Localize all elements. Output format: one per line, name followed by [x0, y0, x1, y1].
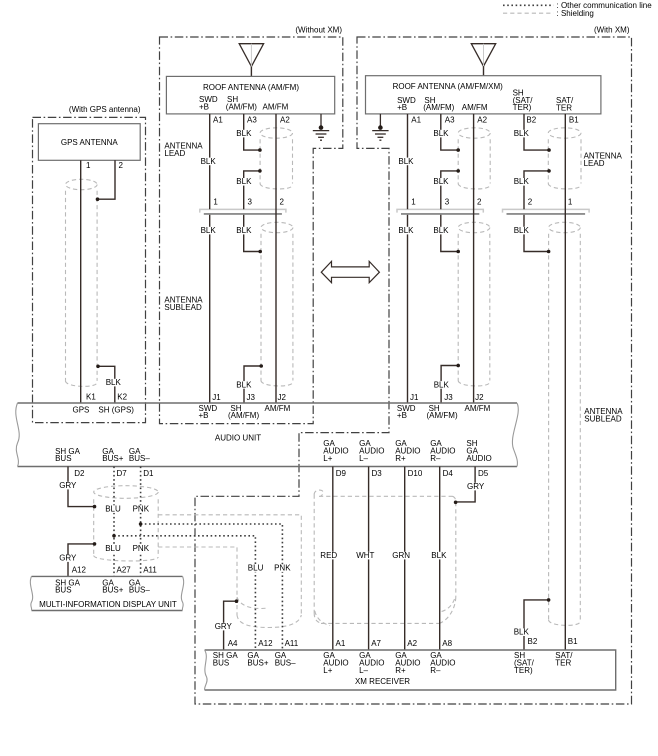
- shield around GA BUS lines: [94, 486, 159, 561]
- wire color BLU lower: [104, 545, 121, 553]
- node shield connection sublead upper (XM): [456, 250, 460, 254]
- svg-text:BLK: BLK: [433, 226, 449, 235]
- svg-text:BLK: BLK: [398, 157, 414, 166]
- wire K2 shield drain to audio unit: [98, 366, 115, 403]
- wire color BLK A1 lead: [200, 158, 217, 166]
- svg-text:AM/FM: AM/FM: [465, 404, 491, 413]
- wire color BLK 2 sublead SAT: [513, 227, 530, 235]
- svg-text:A2: A2: [280, 116, 290, 125]
- svg-text:1: 1: [213, 198, 218, 207]
- svg-text:K2: K2: [117, 393, 127, 402]
- comm line BLU branch to XM receiver A12: [114, 536, 255, 650]
- wire A12 GRY SH GA BUS to display unit: [68, 544, 95, 577]
- svg-text:D5: D5: [478, 469, 489, 478]
- shield around GA AUDIO wires (audio unit to XM receiver): [314, 490, 456, 625]
- node shield connection A3 upper (XM): [456, 148, 460, 152]
- wire D2 GRY SH GA BUS: [68, 467, 94, 507]
- svg-text:TER): TER): [514, 666, 533, 675]
- svg-text:BLK: BLK: [236, 177, 252, 186]
- wire color BLK J1 sublead: [200, 227, 217, 235]
- comm line D7 BLU GA BUS+: [113, 467, 115, 577]
- wire color GRY A12: [58, 554, 74, 562]
- svg-text:L+: L+: [323, 666, 332, 675]
- node shield connection SAT sublead upper: [547, 250, 551, 254]
- svg-text:+B: +B: [199, 102, 209, 111]
- wire color BLK (GPS shield): [105, 379, 122, 387]
- svg-text:PNK: PNK: [133, 544, 150, 553]
- svg-text:BLK: BLK: [433, 129, 449, 138]
- svg-text:BLK: BLK: [514, 226, 530, 235]
- svg-text:BUS+: BUS+: [102, 454, 123, 463]
- wire color GRN GA AUDIO R+: [391, 552, 408, 560]
- node shield connection SAT sublead lower: [547, 598, 551, 602]
- shield antenna sublead SAT/TER: [549, 222, 581, 625]
- svg-text:A12: A12: [258, 639, 273, 648]
- svg-text:D10: D10: [408, 469, 423, 478]
- svg-text:GRY: GRY: [59, 481, 77, 490]
- svg-text:WHT: WHT: [356, 551, 374, 560]
- wire color BLK A3 lower: [235, 178, 252, 186]
- svg-text:D4: D4: [443, 469, 454, 478]
- svg-text:(AM/FM): (AM/FM): [423, 103, 454, 112]
- connector C2 (AM/FM antenna lead / sublead, With XM): [397, 209, 483, 214]
- svg-text:BLK: BLK: [433, 177, 449, 186]
- wire color BLK 3 sublead XM: [432, 227, 449, 235]
- svg-text:BLK: BLK: [106, 378, 122, 387]
- node shield connection A12: [93, 542, 97, 546]
- svg-text:J3: J3: [247, 393, 256, 402]
- svg-text:PNK: PNK: [274, 564, 291, 573]
- node BLU junction: [112, 534, 116, 538]
- svg-text:2: 2: [280, 198, 285, 207]
- wire color PNK branch: [273, 564, 290, 572]
- svg-text:BLK: BLK: [201, 157, 217, 166]
- svg-text:A7: A7: [371, 639, 381, 648]
- svg-text:1: 1: [568, 198, 573, 207]
- unit AUDIO UNIT: [18, 403, 518, 467]
- wire 3 shield drain below connector: [244, 215, 260, 252]
- wire color BLK A3 lower XM: [432, 178, 449, 186]
- svg-text:AM/FM: AM/FM: [263, 102, 289, 111]
- svg-text:BLU: BLU: [248, 564, 264, 573]
- wire A2/J2 AM/FM coax core: [275, 114, 277, 403]
- svg-text:BUS: BUS: [213, 659, 229, 668]
- wire color BLK B2 upper: [513, 130, 530, 138]
- svg-text:BLK: BLK: [398, 226, 414, 235]
- svg-text:BLK: BLK: [201, 226, 217, 235]
- boundary (With XM): [195, 37, 632, 704]
- svg-text:(With XM): (With XM): [594, 26, 630, 35]
- wire color BLK B2 lower: [513, 178, 530, 186]
- svg-text:J2: J2: [278, 393, 287, 402]
- wire color RED GA AUDIO L+: [319, 552, 336, 560]
- wire color BLK 3 sublead: [235, 227, 252, 235]
- svg-text:GRN: GRN: [392, 551, 410, 560]
- svg-text:2: 2: [477, 198, 482, 207]
- wire color BLU upper: [104, 505, 121, 513]
- svg-text:A12: A12: [72, 565, 87, 574]
- unit XM RECEIVER: [205, 650, 616, 690]
- wire A3 shield drain to connector (XM): [441, 171, 458, 209]
- wire GPS pin2 shield stub: [98, 160, 115, 199]
- svg-text:B2: B2: [526, 116, 536, 125]
- svg-text:BLK: BLK: [236, 380, 252, 389]
- svg-text:: Shielding: : Shielding: [557, 9, 594, 18]
- unit ROOF ANTENNA (AM/FM): [166, 76, 334, 114]
- wire B1 SAT/TER coax core: [564, 114, 566, 650]
- svg-text:BUS–: BUS–: [129, 454, 150, 463]
- wire D3-A7 WHT GA AUDIO L-: [368, 467, 370, 651]
- svg-text:(With GPS antenna): (With GPS antenna): [69, 105, 141, 114]
- svg-text:D1: D1: [143, 469, 154, 478]
- shield antenna sublead AM/FM (Without XM): [261, 222, 293, 386]
- svg-text:A3: A3: [247, 116, 257, 125]
- wire D4-A8 BLK GA AUDIO R-: [439, 467, 441, 651]
- wire J1 SWD+B antenna sublead (XM): [407, 215, 409, 403]
- svg-text:(AM/FM): (AM/FM): [427, 411, 458, 420]
- node shield connection GPS upper: [96, 197, 100, 201]
- svg-text:ROOF ANTENNA (AM/FM): ROOF ANTENNA (AM/FM): [203, 83, 299, 92]
- shield antenna lead AM/FM (With XM): [458, 128, 490, 189]
- shield antenna sublead AM/FM (With XM): [458, 222, 490, 386]
- node shield connection sublead upper: [258, 250, 262, 254]
- ground G2 (With XM roof antenna): [372, 114, 388, 140]
- svg-text:BUS: BUS: [55, 454, 71, 463]
- wire A3 shield drain to connector: [244, 171, 260, 209]
- wire color BLK J3 XM: [433, 381, 450, 389]
- svg-text:B2: B2: [528, 637, 538, 646]
- svg-text:GRY: GRY: [59, 554, 77, 563]
- svg-text:A3: A3: [445, 116, 455, 125]
- svg-text:LEAD: LEAD: [164, 149, 185, 158]
- svg-text:R+: R+: [395, 454, 406, 463]
- antenna symbol (With XM): [471, 44, 495, 76]
- svg-text:SH (GPS): SH (GPS): [98, 405, 134, 414]
- wire GPS pin1 to K1 coax core: [80, 160, 82, 403]
- svg-text:AM/FM: AM/FM: [265, 404, 291, 413]
- svg-text:BLK: BLK: [514, 628, 530, 637]
- svg-text:+B: +B: [397, 411, 407, 420]
- svg-text:R+: R+: [395, 666, 406, 675]
- ground G1 (Without XM roof antenna): [313, 114, 329, 140]
- wire color GRY D5: [466, 483, 483, 491]
- svg-text:D7: D7: [117, 469, 128, 478]
- wire 3 shield drain below connector (XM): [441, 215, 458, 252]
- svg-text:A1: A1: [213, 116, 223, 125]
- svg-text:MULTI-INFORMATION DISPLAY UNIT: MULTI-INFORMATION DISPLAY UNIT: [39, 600, 177, 609]
- interchange arrow between Without XM and With XM: [321, 261, 379, 282]
- svg-text:LEAD: LEAD: [584, 159, 605, 168]
- boundary (With GPS antenna): [33, 117, 146, 422]
- svg-text:D9: D9: [336, 469, 347, 478]
- legend other-communication-line sample: [503, 4, 554, 6]
- shield antenna lead AM/FM (Without XM): [260, 128, 292, 189]
- svg-text:A4: A4: [228, 639, 238, 648]
- wire color BLK A1 lead XM: [397, 158, 414, 166]
- svg-text:3: 3: [445, 198, 450, 207]
- svg-text:R–: R–: [430, 454, 441, 463]
- wire J3 shield drain to audio unit (XM): [441, 366, 458, 404]
- svg-text:D3: D3: [372, 469, 383, 478]
- svg-text:GRY: GRY: [215, 622, 233, 631]
- comm line D1 PNK GA BUS-: [140, 467, 142, 577]
- svg-text:L–: L–: [359, 666, 368, 675]
- svg-text:XM RECEIVER: XM RECEIVER: [355, 677, 410, 686]
- svg-text:+B: +B: [397, 103, 407, 112]
- svg-text:1: 1: [86, 161, 91, 170]
- svg-text:BLK: BLK: [514, 177, 530, 186]
- svg-text:L+: L+: [323, 454, 332, 463]
- legend shielding sample: [503, 12, 554, 14]
- svg-text:A11: A11: [143, 565, 157, 574]
- wire A3 shield drain upper stub (XM): [441, 114, 458, 150]
- wire B2 shield drain to XM receiver: [524, 600, 549, 650]
- svg-text:A11: A11: [285, 639, 299, 648]
- svg-text:3: 3: [248, 198, 253, 207]
- node shield connection D5: [454, 501, 458, 505]
- wire color BLK A3 upper XM: [432, 130, 449, 138]
- svg-text:TER: TER: [556, 104, 572, 113]
- unit GPS ANTENNA: [38, 124, 140, 161]
- node shield connection D2: [93, 505, 97, 509]
- wire A4 GRY SH GA BUS to XM receiver: [224, 601, 237, 650]
- svg-text:2: 2: [528, 198, 533, 207]
- svg-text:BLK: BLK: [514, 129, 530, 138]
- wire color BLK B2 bottom: [513, 628, 530, 636]
- svg-text:BLU: BLU: [105, 544, 121, 553]
- wire D10-A2 GRN GA AUDIO R+: [404, 467, 406, 651]
- boundary (Without XM): [160, 37, 343, 424]
- shield antenna lead SAT/TER: [548, 128, 581, 189]
- unit ROOF ANTENNA (AM/FM/XM): [366, 76, 601, 114]
- svg-text:(AM/FM): (AM/FM): [228, 411, 259, 420]
- svg-text:J3: J3: [444, 393, 453, 402]
- svg-text:J1: J1: [212, 393, 221, 402]
- node shield connection GPS lower: [96, 365, 100, 369]
- antenna symbol (Without XM): [239, 44, 263, 77]
- shield around GPS antenna lead (pin 1 wire): [66, 179, 98, 386]
- wire J3 shield drain to audio unit: [244, 366, 261, 403]
- svg-text:L–: L–: [359, 454, 368, 463]
- connector C3 (SAT/TER antenna lead / sublead): [503, 209, 590, 214]
- wire D5 GRY SH GA AUDIO stub: [456, 467, 475, 502]
- wire D9-A1 RED GA AUDIO L+: [332, 467, 334, 651]
- wire color PNK upper: [132, 505, 149, 513]
- wire color GRY D2: [58, 482, 74, 490]
- svg-text:BUS: BUS: [55, 586, 71, 595]
- svg-text:SUBLEAD: SUBLEAD: [164, 303, 202, 312]
- svg-text:2: 2: [119, 161, 124, 170]
- svg-text:A2: A2: [477, 116, 487, 125]
- wire color BLU branch: [247, 564, 263, 572]
- wire A1 SWD+B antenna lead (XM): [407, 114, 409, 209]
- node shield connection B2 lower: [547, 169, 551, 173]
- svg-text:J1: J1: [410, 393, 419, 402]
- svg-text:BUS+: BUS+: [247, 659, 268, 668]
- svg-text:B1: B1: [568, 637, 578, 646]
- node shield connection B2 upper: [547, 148, 551, 152]
- svg-text:BUS+: BUS+: [102, 586, 123, 595]
- svg-text:AUDIO UNIT: AUDIO UNIT: [215, 434, 261, 443]
- svg-text:A1: A1: [336, 639, 346, 648]
- svg-text:AM/FM: AM/FM: [462, 103, 488, 112]
- svg-text:R–: R–: [430, 666, 441, 675]
- svg-text:BLK: BLK: [431, 551, 447, 560]
- shield channel to XM receiver (GA BUS lines): [158, 515, 301, 628]
- wire color BLK J3: [235, 381, 252, 389]
- svg-text:PNK: PNK: [133, 505, 150, 514]
- svg-text:SUBLEAD: SUBLEAD: [584, 414, 622, 423]
- svg-text:A8: A8: [442, 639, 452, 648]
- svg-text:ROOF ANTENNA (AM/FM/XM): ROOF ANTENNA (AM/FM/XM): [393, 82, 504, 91]
- comm line PNK branch to XM receiver A11: [141, 524, 283, 650]
- svg-text:B1: B1: [569, 116, 579, 125]
- svg-text:GRY: GRY: [467, 482, 485, 491]
- node shield connection A3 lower (XM): [456, 169, 460, 173]
- node PNK junction: [139, 522, 143, 526]
- svg-text:A27: A27: [117, 565, 132, 574]
- wire B2 SH(SAT/TER) upper stub: [524, 114, 548, 150]
- svg-text:K1: K1: [86, 393, 96, 402]
- node shield connection sublead lower (XM): [456, 364, 460, 368]
- node shield connection A3 lower: [258, 169, 262, 173]
- svg-text:BUS–: BUS–: [275, 659, 296, 668]
- svg-text:BLU: BLU: [105, 505, 121, 514]
- svg-text:TER): TER): [513, 103, 532, 112]
- svg-text:RED: RED: [320, 551, 337, 560]
- svg-text:GPS: GPS: [73, 405, 90, 414]
- wire color BLK GA AUDIO R-: [430, 552, 447, 560]
- node shield connection A3 upper: [258, 148, 262, 152]
- svg-text:BLK: BLK: [236, 129, 252, 138]
- wire J1 SWD+B antenna sublead: [209, 215, 211, 403]
- wire color GRY A4: [214, 623, 231, 631]
- wire color BLK J1 sublead XM: [397, 227, 414, 235]
- svg-text:BLK: BLK: [236, 226, 252, 235]
- node shield connection A4: [235, 599, 239, 603]
- svg-text:BUS–: BUS–: [129, 586, 150, 595]
- wire B2 shield drain to connector: [524, 171, 549, 209]
- svg-text:TER: TER: [555, 659, 571, 668]
- wire A2/J2 AM/FM coax core (XM): [473, 114, 475, 403]
- svg-text:(Without XM): (Without XM): [295, 26, 342, 35]
- unit MULTI-INFORMATION DISPLAY UNIT: [32, 576, 183, 610]
- svg-text:(AM/FM): (AM/FM): [226, 102, 257, 111]
- svg-text:1: 1: [411, 198, 416, 207]
- svg-text:A1: A1: [411, 116, 421, 125]
- wire color WHT GA AUDIO L-: [355, 552, 372, 560]
- svg-text:A2: A2: [407, 639, 417, 648]
- svg-text:BLK: BLK: [434, 380, 450, 389]
- wire color PNK lower: [132, 545, 149, 553]
- svg-text:+B: +B: [199, 411, 209, 420]
- node shield connection sublead lower: [259, 364, 263, 368]
- svg-text:D2: D2: [74, 469, 85, 478]
- wire A3 shield drain upper stub: [244, 114, 260, 150]
- wire A1 SWD+B antenna lead: [209, 114, 211, 209]
- wire 2 shield drain below connector: [524, 215, 548, 252]
- svg-text:J2: J2: [475, 393, 484, 402]
- svg-text:GPS ANTENNA: GPS ANTENNA: [61, 138, 119, 147]
- svg-text:AUDIO: AUDIO: [466, 454, 491, 463]
- wire color BLK A3 upper: [235, 130, 252, 138]
- connector C1 (antenna lead / sublead, Without XM): [200, 209, 286, 214]
